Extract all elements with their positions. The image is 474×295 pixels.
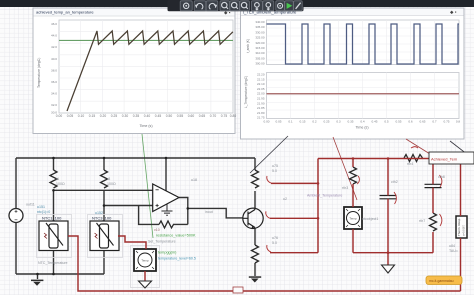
- svg-text:0.5: 0.5: [384, 120, 389, 124]
- svg-text:rth4: rth4: [407, 162, 413, 166]
- svg-text:0.50: 0.50: [166, 114, 173, 118]
- svg-text:310.00: 310.00: [255, 51, 265, 55]
- svg-text:100Ω: 100Ω: [56, 182, 65, 186]
- svg-text:38.0: 38.0: [51, 68, 57, 72]
- svg-text:0.1: 0.1: [288, 120, 293, 124]
- svg-text:330.00: 330.00: [255, 30, 265, 34]
- svg-text:0.25: 0.25: [323, 120, 329, 124]
- svg-text:340.00: 340.00: [255, 20, 265, 24]
- svg-text:Temperature (degC): Temperature (degC): [37, 58, 41, 88]
- svg-text:Temp: Temp: [141, 259, 149, 263]
- svg-text:0.2: 0.2: [312, 120, 317, 124]
- svg-text:22.00: 22.00: [257, 92, 265, 96]
- svg-text:0.6: 0.6: [408, 120, 413, 124]
- svg-text:rth7: rth7: [419, 219, 425, 223]
- svg-text:0.15: 0.15: [299, 120, 305, 124]
- svg-text:temperature_level=60.5: temperature_level=60.5: [158, 257, 196, 261]
- svg-text:0.00: 0.00: [56, 114, 63, 118]
- svg-text:0.15: 0.15: [89, 114, 96, 118]
- svg-text:21.80: 21.80: [257, 111, 265, 115]
- svg-text:out11: out11: [26, 203, 35, 207]
- svg-text:315.00: 315.00: [255, 46, 265, 50]
- svg-text:5.0: 5.0: [272, 241, 277, 245]
- svg-text:22.15: 22.15: [257, 77, 265, 81]
- svg-text:34.0: 34.0: [51, 92, 57, 96]
- svg-text:TAU=: TAU=: [449, 249, 458, 253]
- svg-text:t_amb (K): t_amb (K): [246, 39, 250, 53]
- svg-text:resistance_value=500K: resistance_value=500K: [156, 234, 196, 238]
- svg-text:0.05: 0.05: [67, 114, 74, 118]
- svg-text:0.45: 0.45: [155, 114, 162, 118]
- svg-text:21.95: 21.95: [257, 97, 265, 101]
- svg-text:100Ω: 100Ω: [107, 182, 116, 186]
- svg-text:0.60: 0.60: [188, 114, 195, 118]
- svg-text:0.20: 0.20: [100, 114, 107, 118]
- svg-text:NTC_Temperature: NTC_Temperature: [38, 261, 68, 265]
- svg-text:u18: u18: [191, 178, 197, 182]
- svg-text:NTC1_100: NTC1_100: [42, 216, 62, 221]
- svg-text:a=0.0167: a=0.0167: [462, 225, 466, 236]
- svg-text:Achieved_Tem: Achieved_Tem: [431, 157, 458, 162]
- svg-text:ntc(1)=0: ntc(1)=0: [37, 210, 50, 214]
- svg-text:0.75: 0.75: [221, 114, 228, 118]
- svg-text:0.70: 0.70: [210, 114, 217, 118]
- svg-text:0.55: 0.55: [395, 120, 401, 124]
- svg-text:mc-it-gammatau: mc-it-gammatau: [429, 279, 454, 283]
- svg-text:Ambient_Temperature: Ambient_Temperature: [307, 194, 342, 198]
- svg-text:u152: u152: [95, 211, 103, 215]
- svg-text:0.80: 0.80: [230, 114, 237, 118]
- svg-text:ntcobject1: ntcobject1: [362, 217, 378, 221]
- svg-text:Time (s): Time (s): [139, 124, 152, 128]
- svg-text:22.20: 22.20: [257, 73, 265, 77]
- svg-text:0.40: 0.40: [144, 114, 151, 118]
- svg-text:0.4: 0.4: [360, 120, 365, 124]
- svg-text:u84: u84: [449, 244, 455, 248]
- svg-text:21.90: 21.90: [257, 101, 265, 105]
- svg-text:0.10: 0.10: [78, 114, 85, 118]
- svg-text:Therm. Resp.: Therm. Resp.: [457, 218, 461, 236]
- svg-text:r1: r1: [56, 177, 59, 181]
- svg-text:0.65: 0.65: [199, 114, 206, 118]
- svg-text:Time (s): Time (s): [355, 126, 368, 130]
- svg-text:5.0: 5.0: [272, 169, 277, 173]
- svg-text:22.05: 22.05: [257, 87, 265, 91]
- svg-text:0.8: 0.8: [456, 120, 461, 124]
- svg-text:32.0: 32.0: [51, 103, 57, 107]
- svg-text:0.65: 0.65: [419, 120, 425, 124]
- svg-text:0.30: 0.30: [122, 114, 129, 118]
- svg-text:r3: r3: [107, 177, 110, 181]
- svg-text:inout: inout: [205, 210, 213, 214]
- svg-text:rth3: rth3: [342, 186, 348, 190]
- svg-text:u2: u2: [283, 197, 287, 201]
- svg-text:0.75: 0.75: [443, 120, 449, 124]
- svg-text:tempgg(m): tempgg(m): [158, 251, 177, 255]
- svg-text:Temp: Temp: [349, 217, 357, 221]
- svg-text:0.35: 0.35: [133, 114, 140, 118]
- svg-text:42.0: 42.0: [51, 45, 57, 49]
- svg-text:40.0: 40.0: [51, 57, 57, 61]
- svg-text:achieved_temp_an_temperature: achieved_temp_an_temperature: [36, 10, 94, 15]
- svg-text:cth2: cth2: [391, 180, 398, 184]
- svg-text:u76: u76: [272, 236, 278, 240]
- svg-text:NTC3_100: NTC3_100: [92, 216, 112, 221]
- svg-text:v10: v10: [154, 228, 160, 232]
- svg-text:Set_Temperature: Set_Temperature: [148, 240, 176, 244]
- svg-text:0.7: 0.7: [432, 120, 437, 124]
- svg-text:0.25: 0.25: [111, 114, 118, 118]
- svg-text:0.05: 0.05: [275, 120, 281, 124]
- svg-text:0.55: 0.55: [177, 114, 184, 118]
- svg-text:44.0: 44.0: [51, 34, 57, 38]
- svg-text:u151: u151: [37, 205, 45, 209]
- svg-text:cth8: cth8: [438, 175, 445, 179]
- svg-text:0.45: 0.45: [371, 120, 377, 124]
- svg-text:320.00: 320.00: [255, 41, 265, 45]
- svg-text:L_Temperature (degC): L_Temperature (degC): [244, 76, 248, 108]
- svg-text:u75: u75: [272, 164, 278, 168]
- svg-text:325.00: 325.00: [255, 36, 265, 40]
- svg-text:22.10: 22.10: [257, 82, 265, 86]
- svg-text:300.00: 300.00: [255, 62, 265, 66]
- svg-text:0.3: 0.3: [336, 120, 341, 124]
- svg-text:335.00: 335.00: [255, 25, 265, 29]
- svg-text:0.00: 0.00: [263, 120, 269, 124]
- svg-text:46.0: 46.0: [51, 22, 57, 26]
- svg-text:36.0: 36.0: [51, 80, 57, 84]
- svg-text:0.35: 0.35: [347, 120, 353, 124]
- svg-text:305.00: 305.00: [255, 56, 265, 60]
- svg-text:◆ ▪: ◆ ▪: [450, 10, 457, 15]
- svg-text:21.85: 21.85: [257, 106, 265, 110]
